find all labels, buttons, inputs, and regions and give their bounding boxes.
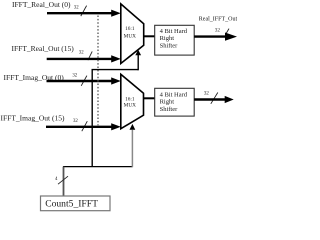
bus slash (input 0) [81, 6, 87, 17]
mux U1 16:1 MUX body [121, 4, 144, 64]
svg-text:MUX: MUX [124, 33, 137, 39]
svg-text:IFFT_Imag_Out (15): IFFT_Imag_Out (15) [1, 113, 65, 122]
wire IFFT_Imag_Out(15) arrow into MUX U2 [46, 123, 121, 130]
svg-text:IFFT_Real_Out (15): IFFT_Real_Out (15) [12, 44, 75, 53]
wire IFFT_Real_Out(15) arrow into MUX U1 [47, 55, 121, 62]
wire MUX U1 output to shifter U3 [144, 35, 155, 37]
wire IFFT_Imag_Out(0) arrow into MUX U2 [47, 77, 121, 84]
mux U2 16:1 MUX body [121, 74, 144, 128]
wire select branch vertical to MUX U1 region [91, 69, 93, 167]
wire select horizontal under MUX U1 [92, 69, 139, 71]
svg-text:16:1: 16:1 [125, 26, 135, 32]
bus slash (imag input 0) [81, 76, 87, 86]
svg-text:Count5_IFFT: Count5_IFFT [45, 198, 98, 209]
wire Imag_IFFT_Output arrow [194, 96, 234, 103]
bus slash (imag output) [211, 93, 218, 104]
wire Real_IFFT_Output arrow [194, 33, 237, 41]
wire select vertical riser into MUX U2 with arrowhead [130, 124, 136, 167]
svg-text:Shifter: Shifter [160, 43, 179, 50]
svg-text:Real_IFFT_Output: Real_IFFT_Output [199, 17, 237, 23]
wire MUX U2 output to shifter U4 [144, 97, 155, 99]
svg-text:32: 32 [74, 6, 79, 11]
block U3 4 Bit Hard Right Shifter [155, 25, 195, 55]
svg-text:4 Bit Hard: 4 Bit Hard [160, 28, 188, 35]
bus slash (real output) [225, 29, 229, 35]
bus slash (counter output) [58, 176, 68, 184]
svg-text:32: 32 [73, 119, 78, 124]
block counter Count5_IFFT [41, 196, 111, 211]
svg-text:32: 32 [79, 51, 84, 56]
block U4 4 Bit Hard Right Shifter [155, 88, 195, 116]
bus slash (input 15) [88, 51, 92, 60]
svg-text:Shifter: Shifter [160, 106, 179, 113]
bus slash (imag input 15) [82, 121, 88, 131]
wire IFFT_Real_Out(0) arrow into MUX U1 [47, 10, 121, 17]
svg-text:Right: Right [160, 98, 175, 105]
svg-text:32: 32 [215, 28, 221, 34]
wire select main horizontal from counter [63, 166, 132, 168]
wire select vertical riser into MUX U1 with arrowhead [135, 50, 141, 71]
svg-text:IFFT_Real_Out (0): IFFT_Real_Out (0) [12, 0, 71, 9]
svg-text:32: 32 [204, 91, 210, 97]
wire counter output riser [63, 167, 65, 196]
svg-text:MUX: MUX [124, 103, 137, 109]
wire dashed ellipsis continuation line [97, 16, 99, 126]
svg-text:32: 32 [72, 73, 77, 78]
svg-text:Right: Right [160, 35, 175, 42]
svg-text:16:1: 16:1 [125, 96, 135, 102]
